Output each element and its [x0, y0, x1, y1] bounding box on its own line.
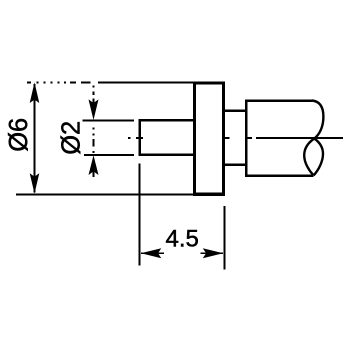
Ø2 bottom extension line	[84, 154, 134, 156]
center line	[128, 137, 343, 139]
svg-text:Ø6: Ø6	[5, 118, 33, 152]
flange Ø6 outline	[195, 83, 224, 194]
4.5 arrow right	[203, 248, 224, 258]
shaft break curve	[304, 101, 323, 176]
Ø2 arrow up	[89, 155, 99, 175]
Ø6 arrow up	[30, 82, 40, 103]
4.5 left extension line	[139, 164, 141, 266]
Ø2 dimension line (dash-dot)	[93, 86, 95, 178]
4.5 arrow left	[141, 248, 162, 258]
Ø6 bottom extension line	[16, 194, 195, 196]
svg-text:4.5: 4.5	[166, 226, 199, 253]
shaft outline	[246, 101, 313, 176]
Ø2 arrow down	[89, 99, 99, 120]
Ø6 dimension line	[34, 84, 36, 193]
Ø2 top extension line	[83, 120, 135, 122]
Ø6 arrow down	[30, 173, 40, 193]
Ø6 top extension line (dash-dot)	[27, 82, 193, 84]
4.5 right extension line	[224, 206, 226, 270]
neck outline	[224, 111, 247, 165]
pin Ø2 outline	[140, 120, 195, 155]
4.5 dimension line	[141, 252, 223, 254]
svg-text:Ø2: Ø2	[58, 121, 86, 155]
